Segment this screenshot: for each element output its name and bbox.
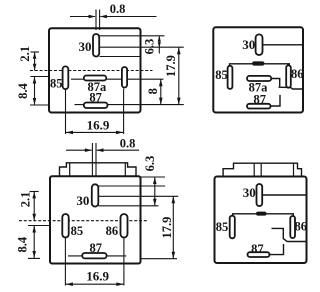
svg-text:85: 85	[71, 224, 84, 238]
dimension 16.9 A : extension lines	[66, 89, 124, 135]
svg-text:0.8: 0.8	[120, 137, 136, 151]
pin 86 (D)	[290, 216, 295, 238]
relay body outline B	[213, 27, 303, 112]
svg-text:8.4: 8.4	[16, 236, 30, 252]
wire ext pin30 top C	[99, 185, 166, 187]
coil wire D	[233, 214, 294, 216]
node line 87 row A	[75, 104, 184, 106]
svg-text:30: 30	[79, 39, 92, 54]
svg-text:30: 30	[76, 193, 89, 208]
pin 30 (C)	[92, 184, 99, 206]
svg-text:2.1: 2.1	[18, 46, 32, 62]
svg-text:87: 87	[90, 241, 103, 255]
pin 86 (B)	[286, 65, 291, 87]
svg-text:17.9: 17.9	[160, 217, 174, 239]
svg-text:30: 30	[242, 37, 255, 52]
node line 87a row A	[71, 78, 164, 80]
wire armature B	[279, 87, 303, 89]
svg-text:8: 8	[146, 88, 160, 94]
coil K (B)	[252, 61, 265, 65]
centerline (dashed) A	[30, 70, 153, 72]
dimension 6.3 A : line + arrows	[158, 37, 160, 54]
dimension 17.9 A : line + arrows	[178, 47, 180, 104]
svg-text:86: 86	[295, 220, 308, 234]
dimension 16.9 C : extension lines	[65, 238, 124, 286]
svg-text:6.3: 6.3	[143, 156, 157, 172]
coil K (D)	[256, 212, 267, 216]
dimension 6.3 C : line + arrows	[154, 177, 156, 206]
relay top strip D	[223, 163, 301, 176]
wire ext pin30 top A	[100, 35, 165, 37]
node line 87 row C	[68, 255, 126, 257]
dimension 0.8 A : lines	[70, 16, 157, 18]
wire ext bottom C	[141, 258, 178, 260]
dimension 2.1 A : line + arrows	[34, 52, 36, 71]
coil wire B	[230, 64, 290, 67]
wire 87 contact D	[270, 244, 284, 255]
svg-text:85: 85	[215, 68, 228, 82]
dimension 0.8 C : arrows	[85, 148, 104, 152]
svg-text:2.1: 2.1	[18, 192, 32, 208]
svg-text:30: 30	[243, 185, 256, 200]
wire ext pin30 bottom A	[100, 56, 141, 58]
dimension 16.9 A : line + arrows	[66, 131, 124, 133]
dimension 8.4 C : line + arrows	[33, 226, 35, 259]
svg-text:8.4: 8.4	[16, 82, 30, 98]
svg-text:86: 86	[106, 224, 119, 238]
dimension 2.1 C : tick	[30, 191, 39, 193]
dimension 0.8 C : ticks	[92, 143, 96, 176]
wire ext case top C	[141, 176, 166, 178]
dimension 8.4 C : reference lines	[28, 226, 50, 259]
pin 87a (B)	[247, 76, 271, 81]
svg-text:87: 87	[89, 91, 102, 105]
svg-text:87: 87	[253, 92, 266, 106]
svg-text:85: 85	[50, 76, 63, 90]
dimension 8 A : line + arrows	[160, 79, 162, 104]
strip divisions C	[70, 163, 126, 177]
wire ext pin30 mid A	[100, 46, 184, 48]
svg-text:6.3: 6.3	[143, 39, 157, 55]
pin 85 (B)	[228, 66, 233, 89]
wire ext pin30 bottom C	[99, 205, 159, 207]
wire 30 contact D	[272, 228, 307, 241]
wire pin30 to case D	[262, 194, 306, 196]
strip divisions D	[254, 163, 293, 176]
pin 85 (C)	[62, 214, 68, 238]
pin 87 (B)	[247, 104, 271, 109]
relay top strip C	[60, 163, 137, 177]
dimension 0.8 A : arrows	[89, 15, 107, 19]
pin 30 (A)	[93, 34, 99, 57]
svg-text:0.8: 0.8	[110, 2, 126, 16]
dimension 0.8 C : lines	[66, 149, 139, 151]
svg-text:86: 86	[291, 67, 304, 81]
pin 30 (D)	[257, 184, 263, 206]
svg-text:17.9: 17.9	[164, 55, 178, 77]
relay body outline D	[215, 177, 307, 264]
pin 87 (A)	[84, 103, 108, 109]
pin 86 (C)	[121, 214, 128, 238]
wire 87a contact B	[271, 79, 280, 87]
dimension 2.1 C : line + arrows	[33, 192, 35, 221]
svg-text:16.9: 16.9	[87, 117, 110, 132]
pin 87 (C)	[82, 253, 106, 258]
pin 85 (D)	[230, 216, 235, 239]
pin 87 (D)	[248, 252, 270, 257]
centerline (dashed) C	[19, 220, 147, 222]
dimension 8.4 A : reference lines	[30, 77, 49, 106]
relay body outline C	[50, 176, 141, 263]
svg-text:87: 87	[251, 242, 264, 256]
dimension 17.9 C : line + arrows	[172, 196, 174, 258]
wire 87 contact B	[271, 95, 281, 106]
pin 85 (A)	[63, 66, 69, 89]
wire ext pin30 mid C	[99, 195, 179, 197]
wire pin30 to case B	[263, 44, 303, 46]
svg-text:85: 85	[216, 220, 229, 234]
dimension 8.4 A : line + arrows	[34, 77, 36, 106]
dimension 2.1 A : tick	[31, 51, 40, 53]
relay body outline A	[49, 28, 141, 112]
dimension 0.8 A : ticks	[96, 10, 100, 31]
pin 30 (B)	[256, 34, 263, 55]
pin 87a (A)	[84, 76, 107, 81]
dimension 16.9 C : line + arrows	[65, 283, 124, 285]
pin 86 (A)	[122, 67, 127, 88]
svg-text:16.9: 16.9	[86, 268, 109, 283]
